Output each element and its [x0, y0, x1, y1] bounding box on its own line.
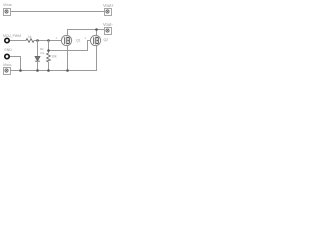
wire D1 to ground rail — [37, 61, 39, 70]
wire Q1 source to rail — [67, 46, 69, 71]
terminal X2 (Vout+) — [105, 9, 112, 16]
wire Q2 source to rail — [96, 46, 98, 71]
terminal X1 (Vbus+ input) — [4, 9, 11, 16]
svg-text:GND: GND — [4, 48, 12, 52]
transistor Q1 — [61, 35, 71, 45]
wire Q2 drain — [96, 30, 98, 36]
pin P2 (GND) — [5, 54, 9, 58]
wire ground rail — [11, 70, 97, 72]
terminal X4 (Vbus- input) — [4, 68, 11, 75]
svg-text:10k: 10k — [52, 55, 58, 59]
svg-text:D1: D1 — [41, 51, 45, 55]
svg-text:Q1: Q1 — [76, 39, 81, 43]
wire Vbus+ top rail — [11, 11, 105, 13]
wire R2 to ground rail — [48, 62, 50, 71]
node junction P2 rail — [19, 69, 22, 72]
svg-text:Vbus: Vbus — [3, 3, 12, 7]
wire Q2 gate elbow — [49, 41, 91, 51]
pin P1 (PWM input) — [5, 38, 9, 42]
node junction at diode tap — [36, 39, 39, 42]
svg-text:Vout+: Vout+ — [103, 3, 114, 8]
transistor Q2 — [90, 35, 100, 45]
wire P2 elbow to rail — [10, 57, 21, 71]
wire Q1 drain up and across to Vout- — [68, 30, 105, 36]
wire gate segment right — [34, 40, 61, 42]
svg-text:Vbus-: Vbus- — [3, 63, 13, 67]
svg-text:MCU_PWM: MCU_PWM — [3, 34, 21, 38]
node junction drain link — [95, 28, 98, 31]
node junction R2 rail — [47, 69, 50, 72]
svg-text:Q2: Q2 — [104, 38, 109, 42]
wire gate segment left — [10, 40, 26, 42]
node junction D1 rail — [36, 69, 39, 72]
resistor R2 (pulldown) — [47, 53, 51, 62]
node junction at pulldown tap — [47, 39, 50, 42]
terminal X3 (Vout-) — [105, 28, 112, 35]
wire diode tap vertical — [37, 41, 39, 57]
resistor R1 — [26, 39, 34, 43]
wire pulldown tap vertical — [48, 41, 50, 54]
diode D1 (zener) — [35, 57, 40, 62]
node junction gate2/pulldown — [47, 49, 50, 52]
node junction Q1 source rail — [66, 69, 69, 72]
svg-text:Vout-: Vout- — [103, 22, 113, 27]
